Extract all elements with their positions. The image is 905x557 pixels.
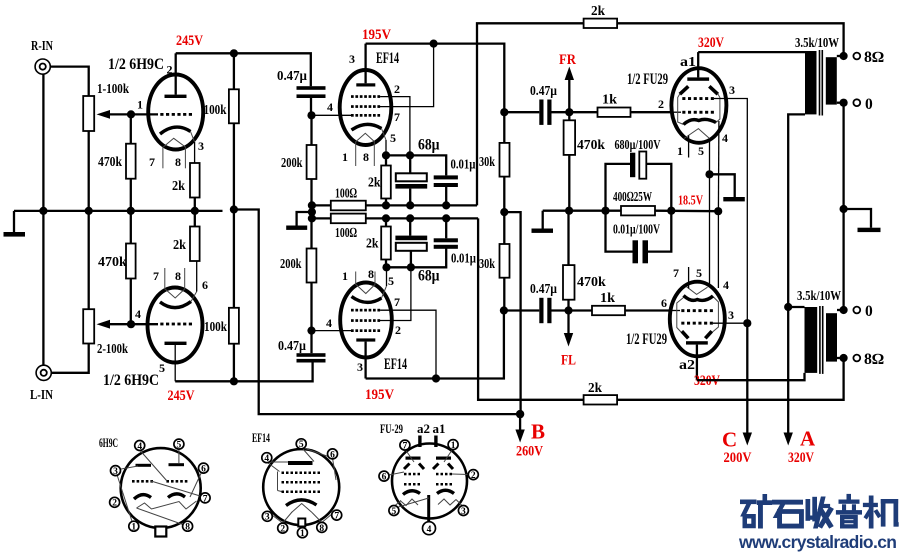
svg-text:4: 4 bbox=[326, 316, 332, 330]
cathode lead to pin 3 bbox=[191, 132, 195, 143]
svg-text:1: 1 bbox=[131, 523, 136, 533]
anode bar V1a bbox=[165, 95, 187, 98]
svg-text:4: 4 bbox=[137, 442, 142, 452]
cathode arcs bbox=[134, 495, 151, 499]
svg-text:3: 3 bbox=[357, 360, 363, 374]
anode bar V2a bbox=[356, 83, 375, 86]
svg-text:2: 2 bbox=[280, 525, 285, 535]
resistor 470k upper bbox=[130, 114, 132, 143]
beam plates V3a bbox=[680, 86, 718, 94]
pin 1 stub upper bbox=[688, 136, 690, 158]
wire anode rail to OPT primary upper bbox=[698, 51, 805, 53]
anode bar V3b bbox=[686, 341, 708, 344]
svg-text:4: 4 bbox=[723, 278, 729, 292]
svg-text:3: 3 bbox=[729, 83, 735, 97]
resistor 200k lower bbox=[310, 283, 312, 331]
resistor 100k lower (anode load) bbox=[233, 344, 235, 382]
wire 245V rail lower bbox=[175, 363, 312, 382]
svg-text:1/2 FU29: 1/2 FU29 bbox=[627, 71, 668, 88]
cathode arc V2b bbox=[352, 297, 382, 303]
cathode lead pin5 lower bbox=[382, 286, 387, 298]
svg-text:5: 5 bbox=[299, 440, 304, 450]
pin 5 lead to ground line bbox=[709, 139, 711, 175]
anode lead V3a bbox=[697, 52, 699, 77]
wire jack to pot lower bbox=[51, 344, 88, 373]
node pin7 tie on rail lower bbox=[432, 374, 440, 382]
svg-text:2: 2 bbox=[395, 323, 401, 337]
wire feedback riser upper bbox=[477, 23, 844, 205]
anode lead V3b bbox=[696, 345, 698, 381]
svg-text:100Ω: 100Ω bbox=[335, 187, 357, 202]
wire pin7 row to anode rail lower bbox=[380, 310, 436, 378]
capacitor 0.47u coupling lower bbox=[504, 309, 539, 311]
svg-text:FL: FL bbox=[561, 353, 576, 369]
arrow C supply bbox=[743, 323, 752, 445]
svg-text:5: 5 bbox=[698, 144, 704, 158]
svg-text:200k: 200k bbox=[281, 156, 303, 171]
svg-text:7: 7 bbox=[403, 442, 408, 452]
svg-text:1/2 FU29: 1/2 FU29 bbox=[626, 331, 667, 348]
dotted rows bbox=[132, 480, 187, 483]
svg-text:L-IN: L-IN bbox=[30, 388, 53, 403]
wire pin7 row to anode rail bbox=[379, 44, 434, 107]
wire OPT upper primary bottom to A column bbox=[788, 114, 805, 436]
grid rows V3b bbox=[681, 309, 713, 324]
OPT lower secondary winding bbox=[826, 313, 837, 361]
resistor 400 ohm 25W bbox=[621, 206, 655, 215]
base diagram EF14 bbox=[252, 430, 342, 539]
capacitor 0.47u input upper bbox=[297, 86, 326, 98]
node B+ mid bbox=[500, 208, 508, 216]
plate bar bbox=[288, 461, 313, 465]
svg-text:0: 0 bbox=[865, 303, 873, 320]
svg-text:2: 2 bbox=[394, 82, 400, 96]
svg-text:8: 8 bbox=[368, 267, 374, 281]
svg-text:1: 1 bbox=[342, 269, 348, 283]
svg-text:3: 3 bbox=[198, 139, 204, 153]
svg-text:470k: 470k bbox=[98, 155, 122, 170]
heater vee bbox=[292, 504, 313, 513]
svg-text:0: 0 bbox=[865, 96, 873, 113]
resistor 2k cathode EF14 upper bbox=[385, 155, 387, 165]
svg-text:8: 8 bbox=[363, 150, 369, 164]
svg-text:6: 6 bbox=[382, 473, 387, 483]
svg-text:5: 5 bbox=[388, 274, 394, 288]
grid dots V1a bbox=[160, 113, 192, 116]
svg-text:A: A bbox=[800, 427, 816, 451]
key notch bbox=[298, 519, 305, 527]
svg-text:1k: 1k bbox=[600, 291, 615, 306]
logo chinese characters bbox=[741, 494, 899, 528]
svg-text:100k: 100k bbox=[204, 103, 227, 118]
resistor 2k cathode EF14 lower bbox=[385, 260, 387, 268]
svg-text:470k: 470k bbox=[98, 255, 127, 270]
svg-text:7: 7 bbox=[673, 266, 679, 280]
OPT upper secondary winding bbox=[826, 57, 837, 104]
svg-text:3: 3 bbox=[349, 52, 355, 66]
wire B+ feed to B node bbox=[234, 210, 520, 415]
wire jack shield to rail bbox=[42, 74, 44, 211]
node screen junction on C column bbox=[743, 319, 751, 327]
heater zigzags bbox=[400, 499, 418, 506]
resistor 2k feedback upper bbox=[584, 19, 618, 28]
svg-text:4: 4 bbox=[135, 307, 141, 321]
heater zigzag bbox=[137, 501, 197, 509]
svg-text:18.5V: 18.5V bbox=[678, 193, 703, 208]
wire wiper to grid of V1 bbox=[131, 113, 158, 115]
resistor 100 ohm lower bbox=[331, 214, 366, 224]
wire pin2 row to cathode node lower bbox=[379, 267, 411, 320]
node B supply junction bbox=[516, 410, 524, 418]
svg-text:5: 5 bbox=[390, 131, 396, 145]
grid dots V1b bbox=[160, 323, 192, 326]
svg-text:200k: 200k bbox=[280, 257, 302, 272]
ground symbol secondary bbox=[844, 209, 871, 228]
svg-text:2k: 2k bbox=[588, 381, 602, 396]
svg-text:8: 8 bbox=[319, 524, 324, 534]
wiper arrow of pot bbox=[97, 110, 132, 119]
svg-text:7: 7 bbox=[394, 295, 400, 309]
svg-text:a1: a1 bbox=[433, 422, 446, 436]
cathode arcs bbox=[403, 491, 420, 495]
svg-text:3: 3 bbox=[113, 467, 118, 477]
svg-text:100Ω: 100Ω bbox=[335, 226, 357, 241]
tube V3a 1/2 FU29 upper envelope bbox=[671, 68, 726, 143]
resistor 2k cathode lower bbox=[190, 227, 200, 262]
node on 245V rail bbox=[230, 49, 238, 57]
center cathode lead bbox=[427, 495, 430, 521]
svg-text:3: 3 bbox=[461, 507, 466, 517]
capacitor 0.01u/100V bypass loop bbox=[606, 211, 633, 252]
ground symbol center-left bbox=[297, 212, 312, 226]
svg-text:a2: a2 bbox=[417, 422, 430, 436]
svg-text:0.01µ: 0.01µ bbox=[451, 158, 476, 173]
svg-text:0.47µ: 0.47µ bbox=[277, 69, 307, 84]
resistor 100k upper (anode load) bbox=[233, 53, 235, 89]
tube V3b 1/2 FU29 lower envelope bbox=[670, 282, 725, 357]
grid rows V2a (3 dotted rows) bbox=[351, 95, 380, 117]
svg-text:R-IN: R-IN bbox=[31, 39, 53, 54]
svg-text:0.01µ/100V: 0.01µ/100V bbox=[613, 223, 660, 238]
svg-text:4: 4 bbox=[264, 454, 269, 464]
node on 245V rail lower bbox=[230, 377, 238, 385]
svg-text:3: 3 bbox=[728, 308, 734, 322]
svg-text:470k: 470k bbox=[577, 275, 606, 290]
anode bar V1b bbox=[165, 342, 187, 345]
svg-text:260V: 260V bbox=[516, 444, 543, 460]
OPT lower primary winding bbox=[805, 307, 818, 373]
wire 245V rail upper bbox=[176, 53, 311, 86]
cathode lead pin5 bbox=[382, 129, 387, 141]
svg-text:2: 2 bbox=[471, 471, 476, 481]
base diagram 6H9C bbox=[99, 435, 210, 537]
svg-text:6: 6 bbox=[661, 296, 667, 310]
pin 4 lead (cathode) bbox=[717, 121, 720, 211]
wire pin2 row to cathode node bbox=[380, 97, 410, 156]
capacitor 68u lower (electrolytic) bbox=[410, 251, 412, 267]
svg-text:4: 4 bbox=[427, 525, 432, 535]
node dots on ground rail bbox=[39, 207, 47, 215]
svg-text:FR: FR bbox=[559, 52, 576, 68]
node FR junction bbox=[565, 108, 573, 116]
svg-text:C: C bbox=[722, 428, 737, 452]
cathode arc V1a bbox=[160, 127, 191, 134]
node EF14 grid junction upper bbox=[307, 111, 315, 119]
svg-text:400Ω25W: 400Ω25W bbox=[613, 190, 652, 205]
wire grid junction to EF14 pin4 upper bbox=[312, 114, 353, 116]
tube V2a EF14 upper envelope bbox=[340, 70, 392, 145]
svg-text:5: 5 bbox=[159, 361, 165, 375]
resistor 2k feedback lower bbox=[584, 395, 618, 404]
wire screen pin3 lower to C column bbox=[713, 322, 747, 324]
dotted rows (two sections) bbox=[404, 473, 452, 486]
pin 7 stub lower bbox=[688, 267, 690, 289]
wire EF14 anode rail lower bbox=[366, 311, 504, 379]
wiper arrow of pot lower bbox=[97, 320, 132, 329]
node EF14 grid junction lower bbox=[307, 327, 315, 335]
cathode arc V3a bbox=[684, 119, 717, 124]
base diagram FU-29 bbox=[379, 421, 478, 535]
connection web bbox=[384, 449, 473, 509]
svg-text:320V: 320V bbox=[788, 450, 814, 466]
wire wiper to grid of V1b bbox=[131, 323, 158, 325]
beam plates V3b bbox=[682, 331, 712, 338]
pin circles 6H9C bbox=[110, 439, 211, 531]
svg-text:7: 7 bbox=[334, 512, 339, 522]
cathode arc V1b bbox=[160, 302, 191, 308]
beam plate side rails thin bbox=[678, 94, 684, 125]
anode lead V1b bbox=[174, 345, 176, 381]
svg-text:680µ/100V: 680µ/100V bbox=[615, 138, 661, 153]
svg-text:2k: 2k bbox=[172, 179, 185, 194]
svg-text:245V: 245V bbox=[168, 388, 195, 404]
node wiper junction lower bbox=[127, 320, 135, 328]
connection web bbox=[267, 447, 337, 523]
svg-text:6: 6 bbox=[202, 278, 208, 292]
rail cathode bias / ground (center right) bbox=[543, 210, 621, 212]
wire secondary common column bbox=[842, 103, 844, 310]
key notch bbox=[155, 527, 166, 537]
svg-text:0.01µ: 0.01µ bbox=[451, 252, 476, 267]
OPT lower core bbox=[819, 306, 821, 374]
resistor 30k lower bbox=[503, 212, 505, 244]
svg-text:0.47µ: 0.47µ bbox=[530, 84, 557, 99]
svg-text:4: 4 bbox=[327, 100, 333, 114]
wire heater line down to lower tube bbox=[709, 174, 711, 287]
connector R-IN jack bbox=[35, 59, 50, 74]
grid rows V3a bbox=[682, 97, 714, 114]
svg-text:1/2 6H9C: 1/2 6H9C bbox=[103, 372, 159, 389]
svg-text:2: 2 bbox=[112, 499, 117, 509]
svg-text:1/2 6H9C: 1/2 6H9C bbox=[108, 56, 164, 73]
svg-text:EF14: EF14 bbox=[384, 356, 407, 373]
wire cathode node to caps lower bbox=[387, 248, 447, 268]
wire grid junction to EF14 pin4 lower bbox=[312, 330, 353, 332]
svg-text:8Ω: 8Ω bbox=[864, 351, 884, 368]
svg-text:195V: 195V bbox=[362, 27, 391, 43]
node loop riser left bbox=[601, 207, 609, 215]
svg-text:7: 7 bbox=[203, 494, 208, 504]
plate bars bbox=[136, 464, 152, 467]
svg-text:320V: 320V bbox=[698, 35, 724, 51]
wire bridge between rails bbox=[311, 205, 313, 218]
resistor 1k lower bbox=[569, 309, 593, 311]
heater V1b bbox=[165, 289, 185, 298]
arrow A supply bbox=[784, 433, 793, 446]
capacitor 0.01u lower bbox=[434, 238, 458, 249]
svg-text:1k: 1k bbox=[602, 93, 617, 108]
a2 a1 top leads bbox=[418, 436, 421, 448]
svg-text:www.crystalradio.cn: www.crystalradio.cn bbox=[738, 532, 897, 552]
wire anode rail to OPT primary lower bbox=[697, 373, 805, 380]
ground rail left bbox=[14, 210, 223, 212]
node wiper junction bbox=[127, 110, 135, 118]
wire pot top to ground rail bbox=[88, 211, 90, 309]
svg-text:1-100k: 1-100k bbox=[97, 82, 129, 97]
anode bar V2b bbox=[356, 338, 375, 341]
heater V3b bbox=[687, 287, 708, 295]
svg-text:5: 5 bbox=[177, 441, 182, 451]
pin circles EF14 bbox=[262, 439, 342, 538]
arrow B supply bbox=[515, 414, 524, 442]
svg-text:1: 1 bbox=[677, 144, 683, 158]
node B+ feed junction bbox=[230, 205, 238, 213]
svg-text:4: 4 bbox=[722, 131, 728, 145]
node loop riser right bbox=[667, 207, 675, 215]
OPT upper primary winding bbox=[805, 51, 817, 114]
node cathode junction lower bbox=[382, 263, 390, 271]
svg-text:6H9C: 6H9C bbox=[99, 435, 118, 450]
tube V1b envelope bbox=[148, 288, 203, 363]
node heater ground junction bbox=[705, 170, 713, 178]
connector L-IN jack bbox=[36, 365, 51, 380]
anode bar V3a bbox=[687, 77, 709, 80]
resistor 200k upper bbox=[310, 115, 312, 145]
beam plate side rails thin lower bbox=[677, 298, 684, 333]
resistor 100 ohm upper bbox=[331, 201, 366, 211]
svg-text:8Ω: 8Ω bbox=[864, 49, 884, 66]
tube V2b EF14 lower envelope bbox=[340, 283, 392, 358]
capacitor 0.47u input lower bbox=[297, 353, 326, 362]
node A to OPT lower primary bbox=[784, 303, 792, 311]
wire 0 tap lower bbox=[837, 309, 844, 311]
anode lead V2a to rail bbox=[364, 44, 366, 84]
svg-text:30k: 30k bbox=[479, 155, 495, 170]
svg-text:7: 7 bbox=[153, 269, 159, 283]
svg-text:2: 2 bbox=[658, 97, 664, 111]
node FL junction bbox=[564, 306, 572, 314]
beam dashes bbox=[404, 464, 453, 470]
svg-text:0.47µ: 0.47µ bbox=[530, 282, 557, 297]
wire B+ mid to B supply column bbox=[504, 212, 520, 414]
arrow FR bbox=[565, 67, 574, 113]
node ground tap bbox=[308, 208, 316, 216]
wire jack to pot bbox=[50, 67, 88, 96]
wire grid entry V3b bbox=[672, 310, 680, 312]
svg-text:6: 6 bbox=[330, 450, 335, 460]
anode lead V2b to rail bbox=[364, 342, 366, 379]
resistor 1k upper bbox=[569, 111, 597, 113]
svg-text:3: 3 bbox=[265, 513, 270, 523]
svg-text:200V: 200V bbox=[724, 450, 752, 466]
OPT upper core bbox=[819, 50, 821, 116]
capacitor 680u/100V bypass loop bbox=[606, 164, 631, 211]
svg-text:7: 7 bbox=[149, 155, 155, 169]
ground symbol bias rail bbox=[542, 211, 544, 229]
svg-text:1: 1 bbox=[300, 529, 305, 539]
wire 8 ohm tap upper bbox=[837, 55, 844, 57]
wire EF14 anode rail upper bbox=[366, 44, 505, 113]
svg-text:1: 1 bbox=[451, 441, 456, 451]
node cathode junction upper bbox=[382, 151, 390, 159]
svg-text:1: 1 bbox=[137, 98, 143, 112]
resistor 470k grid lower bbox=[567, 300, 569, 311]
resistor 2k cathode upper bbox=[190, 163, 200, 198]
svg-text:30k: 30k bbox=[479, 257, 495, 272]
svg-text:a2: a2 bbox=[679, 358, 695, 373]
svg-text:2k: 2k bbox=[173, 238, 186, 253]
svg-text:0.47µ: 0.47µ bbox=[278, 339, 306, 354]
anode lead V1a bbox=[175, 53, 177, 94]
tube V1a envelope bbox=[148, 75, 203, 150]
capacitor 0.01u upper bbox=[434, 175, 458, 187]
wire jack shield up to rail bbox=[42, 211, 44, 365]
svg-text:2k: 2k bbox=[591, 4, 605, 19]
ground symbol FU29 bbox=[710, 174, 735, 197]
heater V2b bbox=[356, 285, 375, 294]
grid rows V2b (3 dotted rows) bbox=[351, 309, 380, 332]
svg-text:6: 6 bbox=[201, 465, 206, 475]
wire 0 tap upper bbox=[837, 102, 844, 104]
dotted rows bbox=[282, 472, 321, 494]
wire cathode line down to lower tube bbox=[717, 211, 719, 288]
heater V2a bbox=[356, 133, 374, 141]
node pin7 tie on rail bbox=[430, 40, 438, 48]
potentiometer 2-100k bbox=[83, 309, 94, 343]
svg-text:195V: 195V bbox=[365, 387, 394, 403]
heater V1a bbox=[163, 138, 185, 147]
arrow FL bbox=[564, 311, 573, 347]
svg-text:5: 5 bbox=[696, 266, 702, 280]
plate bars bbox=[406, 457, 421, 460]
wire screen pin3 to C column upper bbox=[714, 99, 747, 324]
heater V3a bbox=[684, 129, 710, 139]
svg-text:68µ: 68µ bbox=[418, 268, 440, 285]
svg-text:8: 8 bbox=[185, 523, 190, 533]
svg-text:8: 8 bbox=[175, 269, 181, 283]
cathode arc V3b bbox=[684, 296, 714, 301]
wire cap to grid node upper bbox=[310, 98, 312, 115]
svg-text:100k: 100k bbox=[204, 320, 227, 335]
capacitor 68u upper (electrolytic) bbox=[409, 155, 411, 173]
svg-text:2k: 2k bbox=[366, 237, 379, 252]
cathode lead to pin 6 bbox=[191, 292, 197, 302]
svg-text:8: 8 bbox=[175, 155, 181, 169]
svg-text:7: 7 bbox=[394, 110, 400, 124]
svg-text:5: 5 bbox=[392, 507, 397, 517]
rail cathode-return lower with dots bbox=[312, 217, 478, 219]
wire feedback riser lower bbox=[478, 218, 843, 399]
svg-text:3.5k/10W: 3.5k/10W bbox=[797, 289, 841, 304]
svg-text:1: 1 bbox=[342, 150, 348, 164]
svg-text:FU-29: FU-29 bbox=[380, 421, 403, 436]
svg-text:a1: a1 bbox=[680, 55, 696, 70]
resistor 470k grid upper bbox=[568, 112, 570, 120]
node cathode line junction bbox=[714, 207, 722, 215]
potentiometer 1-100k bbox=[83, 96, 94, 131]
rail cathode-return upper with dots bbox=[312, 204, 477, 206]
resistor 30k upper bbox=[500, 108, 508, 116]
